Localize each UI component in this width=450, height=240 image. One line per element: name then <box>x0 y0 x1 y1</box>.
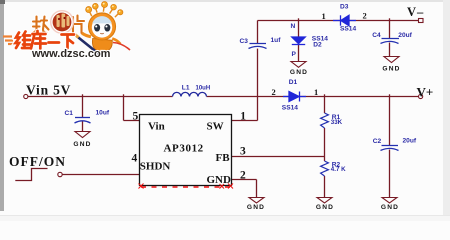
svg-text:1: 1 <box>322 11 326 21</box>
svg-text:GND: GND <box>381 204 399 211</box>
svg-text:V–: V– <box>407 5 424 19</box>
svg-text:GND: GND <box>247 204 265 211</box>
svg-text:5: 5 <box>133 111 139 123</box>
svg-text:N: N <box>291 23 296 30</box>
svg-text:D3: D3 <box>340 3 349 10</box>
svg-text:10uf: 10uf <box>96 110 110 117</box>
svg-text:GND: GND <box>316 204 334 211</box>
svg-text:Vin: Vin <box>148 121 165 133</box>
svg-text:4: 4 <box>132 153 138 165</box>
svg-text:3: 3 <box>240 146 246 158</box>
svg-text:1: 1 <box>314 87 318 97</box>
svg-text:L1: L1 <box>182 84 190 91</box>
svg-text:2: 2 <box>272 87 276 97</box>
svg-text:GND: GND <box>290 69 308 76</box>
svg-text:4.7 K: 4.7 K <box>331 166 346 173</box>
svg-text:10uH: 10uH <box>196 85 211 91</box>
svg-text:2: 2 <box>363 11 367 21</box>
svg-text:C1: C1 <box>65 110 74 117</box>
svg-text:SS14: SS14 <box>340 26 356 33</box>
svg-text:20uf: 20uf <box>398 32 412 39</box>
svg-text:GND: GND <box>207 174 232 186</box>
svg-text:GND: GND <box>73 141 91 148</box>
svg-text:SW: SW <box>207 121 224 133</box>
svg-text:SS14: SS14 <box>282 104 298 111</box>
svg-text:D1: D1 <box>289 79 298 86</box>
svg-text:P: P <box>292 51 297 58</box>
svg-text:D2: D2 <box>313 41 322 48</box>
svg-text:FB: FB <box>216 152 231 164</box>
svg-text:1: 1 <box>240 111 246 123</box>
svg-text:AP3012: AP3012 <box>164 143 204 155</box>
svg-text:33K: 33K <box>331 119 343 126</box>
svg-text:C2: C2 <box>373 138 382 145</box>
svg-text:SHDN: SHDN <box>140 161 171 173</box>
svg-text:GND: GND <box>382 66 400 73</box>
svg-text:20uf: 20uf <box>403 138 417 145</box>
svg-text:C4: C4 <box>372 32 381 39</box>
svg-text:Vin 5V: Vin 5V <box>26 83 71 98</box>
svg-text:2: 2 <box>240 170 246 182</box>
svg-text:www.dzsc.com: www.dzsc.com <box>31 48 111 60</box>
svg-text:V+: V+ <box>417 85 434 100</box>
svg-text:OFF/ON: OFF/ON <box>9 154 66 169</box>
svg-text:C3: C3 <box>240 38 249 45</box>
svg-text:1uf: 1uf <box>271 37 282 44</box>
